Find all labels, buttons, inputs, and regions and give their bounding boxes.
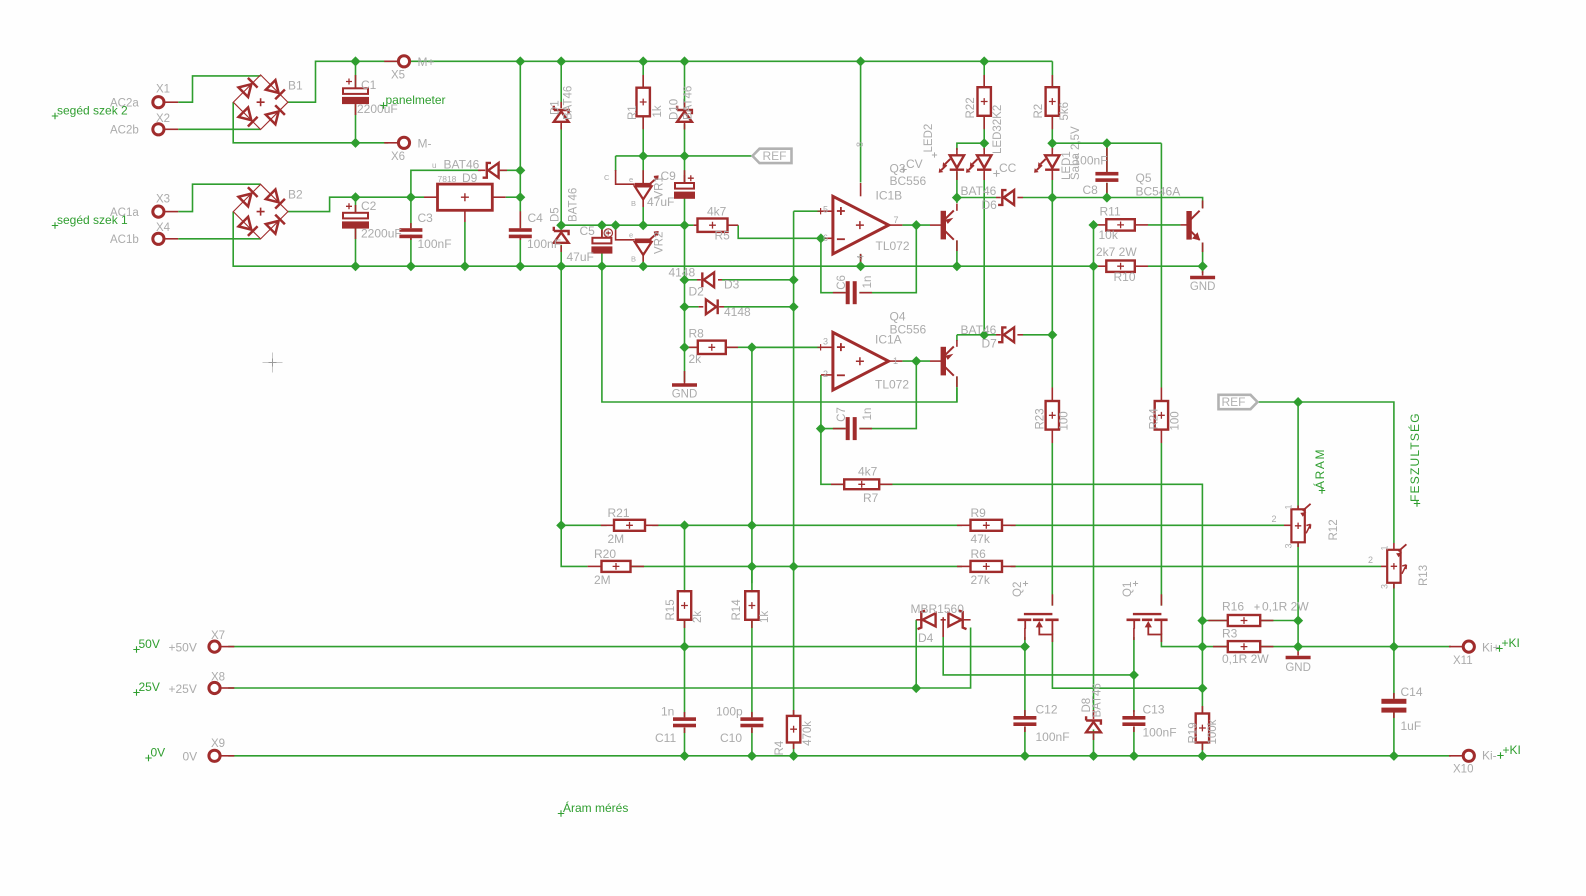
pin VR1 bottom	[642, 198, 644, 208]
svg-text:3: 3	[823, 337, 828, 347]
shunt regulator VR2	[635, 232, 658, 255]
pin IC1A out	[889, 360, 903, 362]
junction	[556, 220, 566, 230]
svg-text:0,1R 2W: 0,1R 2W	[1262, 600, 1309, 614]
capacitor C2	[343, 213, 368, 228]
svg-text:R11: R11	[1100, 205, 1121, 219]
wire C13 bottom	[1133, 727, 1135, 756]
svg-text:10k: 10k	[1099, 228, 1119, 242]
pin C13 top	[1133, 710, 1135, 716]
svg-text:e: e	[629, 175, 633, 184]
wire R14 top	[751, 566, 753, 590]
junction	[747, 751, 757, 761]
wire VR2 bottom	[642, 252, 644, 266]
connector pad X10	[1463, 750, 1474, 761]
resistor R4	[787, 716, 800, 743]
svg-text:C5: C5	[580, 224, 596, 238]
pin IC1A p2	[821, 374, 833, 376]
connector pad X1	[153, 97, 164, 108]
pin C9 top	[684, 170, 686, 183]
wire R15 top	[684, 525, 686, 590]
svg-text:C4: C4	[528, 211, 544, 225]
wire shunt left column	[1201, 621, 1203, 689]
pin D6 left	[996, 197, 1001, 199]
svg-text:D1: D1	[550, 100, 562, 115]
capacitor C8	[1095, 172, 1118, 182]
wire D10 bottom to REF row	[684, 124, 686, 156]
junction	[556, 261, 566, 271]
pin C13 bot	[1133, 726, 1135, 732]
svg-text:X8: X8	[211, 672, 225, 684]
wire D1 to D5	[560, 124, 562, 230]
net flag REF upper	[753, 149, 792, 163]
wire R24 bottom to Q1 gate	[1160, 443, 1162, 606]
pin Q1 drain	[1160, 634, 1162, 643]
svg-text:X7: X7	[211, 630, 225, 642]
svg-text:M-: M-	[418, 137, 432, 151]
marker IC1A origin	[817, 344, 823, 350]
svg-text:REF: REF	[763, 149, 787, 163]
wire D9 input side	[411, 170, 481, 197]
wire R16 right	[1260, 620, 1298, 622]
junction	[556, 520, 566, 530]
junction	[350, 192, 360, 202]
net label panelmeter	[380, 102, 386, 108]
pin R13 pin2	[1381, 565, 1387, 567]
capacitor C5 pin	[601, 225, 603, 238]
pin VR2 ref wire	[616, 228, 635, 240]
resistor R3	[1228, 641, 1260, 652]
pin C7 left	[833, 428, 846, 430]
net label Áram mérés	[558, 810, 564, 816]
svg-text:R12: R12	[1328, 519, 1340, 540]
svg-text:C6: C6	[836, 275, 848, 290]
pin C8 bot	[1106, 183, 1108, 198]
diode D9 BAT46	[483, 163, 499, 178]
wire D5 column to R21 R20	[560, 266, 562, 525]
wire Q2 source	[1024, 637, 1026, 647]
svg-text:100k: 100k	[1207, 719, 1219, 744]
diode D4 centre mark	[941, 617, 946, 622]
pin IC1A p3	[821, 346, 833, 348]
connector pad X4	[153, 233, 164, 244]
svg-text:1: 1	[893, 356, 898, 366]
trimmer R12	[1291, 504, 1310, 543]
junction	[350, 56, 360, 66]
junction	[1389, 642, 1399, 652]
junction	[1020, 751, 1030, 761]
capacitor C7	[846, 417, 857, 440]
svg-text:4k7: 4k7	[858, 465, 878, 479]
pin D1 top	[560, 102, 562, 108]
diode D4 MBR1560 right half	[948, 611, 966, 630]
junction	[816, 424, 826, 434]
wire C2 pins	[355, 197, 357, 213]
svg-text:R7: R7	[863, 491, 879, 505]
diode D6 BAT46	[998, 190, 1014, 205]
wire 0V line	[228, 755, 1451, 757]
junction	[1197, 683, 1207, 693]
capacitor C6	[846, 281, 857, 304]
pin Q4 base	[930, 360, 942, 362]
wire pin5 column	[793, 211, 795, 566]
wire 7818 output to C4 column	[506, 196, 521, 198]
svg-text:BAT46: BAT46	[563, 86, 575, 120]
svg-text:X5: X5	[391, 70, 405, 82]
wire R11 left column	[1093, 225, 1095, 266]
svg-text:4: 4	[856, 255, 866, 260]
net label 0V	[145, 755, 151, 761]
pin R13 pin1	[1393, 543, 1395, 550]
junction	[789, 751, 799, 761]
svg-text:D4: D4	[918, 631, 934, 645]
wire R7 right to shunt column	[879, 484, 1202, 620]
resistor R19	[1196, 714, 1209, 743]
wire LED1 anode	[1051, 143, 1053, 150]
wire D2 left	[685, 279, 698, 281]
wire D1 D5 column	[560, 61, 562, 108]
pin Q5 emitter	[1202, 243, 1204, 253]
svg-text:D3: D3	[724, 278, 740, 292]
pin D3 left	[699, 306, 704, 308]
svg-text:2M: 2M	[594, 573, 611, 587]
pin C5 top	[601, 225, 603, 238]
svg-text:Q4: Q4	[890, 310, 906, 324]
pin R19 bot	[1201, 742, 1203, 750]
svg-text:BAT46: BAT46	[961, 323, 997, 337]
pin R6 right	[1002, 565, 1016, 567]
pin R13 pin3	[1393, 583, 1395, 589]
pin C11 top	[684, 712, 686, 717]
pin R8 right	[726, 346, 738, 348]
svg-text:0V: 0V	[183, 750, 198, 764]
svg-text:BAT46: BAT46	[568, 188, 580, 222]
svg-text:1k: 1k	[652, 105, 664, 117]
svg-text:VR2: VR2	[654, 232, 666, 254]
svg-text:2k: 2k	[692, 611, 704, 623]
pin D7 left	[996, 334, 1001, 336]
wire LED2 cathode	[956, 172, 958, 198]
pin Q4 collector	[956, 376, 958, 387]
svg-text:panelmeter: panelmeter	[386, 93, 446, 107]
ground at R8	[672, 383, 697, 387]
junction	[679, 642, 689, 652]
capacitor C2 plus	[346, 203, 352, 209]
diode D4 MBR1560 left half	[918, 611, 936, 630]
wire R20 right row	[630, 565, 962, 567]
junction	[1197, 751, 1207, 761]
pin R9 right	[1002, 524, 1016, 526]
pin D8 bot	[1093, 734, 1095, 740]
svg-text:D9: D9	[462, 171, 478, 185]
svg-text:segéd szek 1: segéd szek 1	[57, 213, 128, 227]
junction	[747, 342, 757, 352]
wire B2 plus to regulator input rail	[288, 197, 424, 211]
pin R21 right	[645, 524, 658, 526]
connector pad X6	[398, 137, 409, 148]
transistor Q1 MOSFET	[1127, 614, 1168, 634]
wire R19 top	[1201, 688, 1203, 713]
svg-text:1n: 1n	[862, 408, 874, 421]
wire B1 minus to M- line	[233, 102, 388, 143]
svg-text:Q5: Q5	[1136, 171, 1152, 185]
junction	[679, 302, 689, 312]
pin Q3 base	[930, 224, 942, 226]
pin D4 centre	[942, 621, 944, 637]
svg-text:GND: GND	[672, 389, 698, 401]
pin R4 bot	[793, 742, 795, 749]
connector pad X2	[153, 124, 164, 135]
pin Q2 source	[1024, 628, 1026, 640]
pin R22 bot	[983, 116, 985, 129]
wire R16 left	[1202, 620, 1227, 622]
svg-text:VR1: VR1	[654, 176, 666, 198]
svg-text:27k: 27k	[971, 573, 991, 587]
svg-text:R4: R4	[774, 740, 786, 755]
wire R5 row	[561, 224, 693, 226]
svg-text:2M: 2M	[608, 532, 625, 546]
svg-text:R21: R21	[608, 506, 630, 520]
junction	[979, 138, 989, 148]
svg-text:1n: 1n	[862, 276, 874, 289]
junction	[515, 56, 525, 66]
svg-text:100nF: 100nF	[1143, 726, 1177, 740]
pin C2 bot	[355, 228, 357, 239]
svg-text:1: 1	[1284, 504, 1294, 509]
diode D1 BAT46	[554, 106, 569, 122]
wire R22 bottom node	[983, 117, 985, 144]
svg-text:2: 2	[1368, 555, 1373, 565]
pin LED3 cathode	[983, 170, 985, 180]
pin C6 left	[833, 292, 846, 294]
wire Q4 emitter	[956, 335, 958, 341]
pin R14 top	[751, 590, 753, 592]
wire REF2 flag to junction	[1258, 401, 1299, 403]
wire R23 top pin	[1051, 335, 1053, 388]
svg-text:D10: D10	[669, 99, 681, 120]
wire C3 bottom	[410, 235, 412, 266]
resistor R8	[698, 341, 726, 354]
wire X3 to bridge B2 AC1	[178, 184, 260, 211]
svg-text:1k: 1k	[759, 611, 771, 623]
wire C7 right to IC1A out	[859, 361, 916, 429]
wire D7 anode to R23 top	[1023, 334, 1052, 336]
wire D6 anode to LED1 foot	[1023, 197, 1052, 199]
pin R15 top	[684, 590, 686, 592]
wire LED3 cathode column to D7	[983, 172, 985, 335]
svg-text:BC546A: BC546A	[1136, 185, 1181, 199]
net flag REF lower	[1219, 395, 1258, 409]
svg-text:AC1b: AC1b	[110, 234, 139, 246]
shunt regulator VR1	[635, 177, 658, 200]
pin R7 left	[831, 483, 844, 485]
svg-text:100nF: 100nF	[1036, 730, 1070, 744]
junction	[406, 261, 416, 271]
wire R19 bottom	[1201, 743, 1203, 756]
svg-text:R20: R20	[594, 547, 616, 561]
svg-text:GND: GND	[1285, 662, 1311, 674]
wire C12 bottom	[1024, 727, 1026, 756]
svg-text:100nF: 100nF	[418, 237, 452, 251]
capacitor C5	[592, 238, 611, 253]
svg-text:2: 2	[823, 369, 828, 379]
LED LED2	[939, 155, 964, 172]
svg-text:X11: X11	[1453, 655, 1473, 667]
transistor Q3 BC556	[942, 211, 954, 240]
capacitor C9 pin	[684, 175, 686, 183]
svg-text:R8: R8	[689, 327, 705, 341]
svg-text:C2: C2	[361, 199, 377, 213]
svg-text:B2: B2	[288, 188, 303, 202]
wire X1 to bridge B1 AC1	[178, 76, 260, 102]
wire R23 bottom to Q2 gate	[1051, 443, 1053, 606]
wire Q3 emitter	[956, 198, 958, 204]
svg-text:4148: 4148	[724, 305, 751, 319]
pin R11 right	[1135, 224, 1148, 226]
svg-text:3: 3	[1284, 543, 1294, 548]
pin Q2 gate	[1051, 594, 1053, 605]
wire Q3 collector	[956, 241, 958, 267]
pin R11 left	[1096, 224, 1107, 226]
svg-text:7: 7	[894, 215, 899, 225]
transistor Q2 MOSFET	[1018, 614, 1059, 634]
wire R2 top	[1051, 61, 1053, 86]
wire D10 top	[684, 61, 686, 108]
svg-text:0,1R 2W: 0,1R 2W	[1222, 652, 1269, 666]
wire X4 to bridge B2 AC2	[178, 238, 260, 240]
pin 7818 in	[424, 196, 438, 198]
svg-text:segéd szek 2: segéd szek 2	[57, 104, 128, 118]
junction	[979, 330, 989, 340]
pin C3 bot	[410, 235, 412, 240]
wire C11 column	[684, 647, 686, 718]
wire R6 right to pot R13	[1011, 565, 1381, 567]
wire C5 column to Q4 collector line	[602, 266, 957, 402]
svg-text:C10: C10	[720, 731, 742, 745]
svg-text:D6: D6	[982, 198, 998, 212]
svg-text:50V: 50V	[139, 637, 160, 651]
svg-text:100nF: 100nF	[1074, 154, 1108, 168]
svg-text:C: C	[604, 229, 610, 238]
resistor R1	[637, 88, 650, 117]
svg-text:TL072: TL072	[875, 378, 909, 392]
svg-text:TL072: TL072	[876, 239, 910, 253]
svg-text:1n: 1n	[661, 705, 674, 719]
junction	[597, 261, 607, 271]
wire R1 top	[642, 61, 644, 87]
junction	[979, 56, 989, 66]
svg-text:X4: X4	[156, 222, 171, 234]
junction	[747, 520, 757, 530]
pin Q2 drain	[1051, 634, 1053, 643]
resistor R10	[1106, 261, 1135, 272]
junction	[789, 302, 799, 312]
pin R23 bot	[1051, 430, 1053, 443]
wire D5 bottom	[560, 245, 562, 266]
pin 7818 out	[492, 196, 505, 198]
junction	[1198, 261, 1208, 271]
wire R21 to R15 R14	[652, 524, 962, 526]
svg-text:R14: R14	[731, 599, 743, 621]
junction	[1047, 193, 1057, 203]
svg-text:C13: C13	[1143, 703, 1165, 717]
pin D9 right	[500, 169, 507, 171]
svg-text:X3: X3	[156, 194, 170, 206]
wire R9 right to pot R12	[1011, 524, 1284, 526]
wire C12 column	[1024, 647, 1026, 716]
junction	[1102, 193, 1112, 203]
svg-text:X1: X1	[156, 84, 170, 96]
wire D4 left column	[915, 620, 917, 688]
marker LED2 origin	[932, 152, 937, 157]
transistor Q5 BC546A	[1187, 211, 1200, 241]
wire C9 top	[684, 156, 686, 183]
svg-text:2200uF: 2200uF	[361, 227, 402, 241]
wire C1 top	[355, 61, 357, 88]
wire C6 right to IC1B out	[859, 225, 916, 293]
wire R11 left stub wire	[1094, 224, 1096, 226]
pin IC1B p6	[821, 237, 833, 239]
pin Q5 collector	[1202, 201, 1204, 209]
resistor R6	[971, 561, 1003, 572]
diode D2 1N4148	[702, 272, 714, 287]
pin C14 top	[1393, 693, 1395, 699]
pin C14 bot	[1393, 712, 1395, 718]
svg-text:BAT46: BAT46	[444, 158, 480, 172]
svg-text:u: u	[432, 161, 436, 170]
svg-text:100p: 100p	[716, 705, 743, 719]
svg-text:47k: 47k	[971, 532, 991, 546]
resistor R23	[1046, 401, 1059, 430]
wire R11 R10 column to D8	[1093, 266, 1095, 713]
junction	[1088, 220, 1098, 230]
wire C8 top	[1106, 143, 1108, 172]
svg-text:BAT46: BAT46	[961, 184, 997, 198]
svg-text:3: 3	[1380, 584, 1390, 589]
pin R24 bot	[1160, 430, 1162, 443]
junction	[611, 220, 621, 230]
junction	[911, 683, 921, 693]
pin VR2 bottom	[642, 254, 644, 264]
junction	[679, 751, 689, 761]
pin C1 bot	[355, 104, 357, 115]
wire REF2 down to R12 pin1	[1297, 402, 1299, 509]
pin Q3 collector	[956, 240, 958, 251]
wire B1 plus to top bus	[288, 61, 1052, 102]
svg-text:X9: X9	[211, 738, 225, 750]
pin IC1B p5	[821, 210, 833, 212]
svg-text:47uF: 47uF	[567, 250, 594, 264]
svg-text:AC2b: AC2b	[110, 125, 139, 137]
junction	[1197, 616, 1207, 626]
junction	[1293, 397, 1303, 407]
svg-text:4148: 4148	[669, 266, 696, 280]
pin C6 right	[860, 292, 873, 294]
svg-text:B1: B1	[288, 79, 303, 93]
junction	[789, 275, 799, 285]
wire R12 pin3 down	[1297, 543, 1299, 621]
net label segéd szek 2	[52, 113, 58, 119]
pin Q1 source	[1133, 628, 1135, 640]
junction	[816, 233, 826, 243]
pin Q4 emitter	[956, 340, 958, 347]
junction	[679, 520, 689, 530]
junction	[1389, 751, 1399, 761]
voltage regulator D9 7818 body	[438, 184, 493, 210]
svg-text:100nF: 100nF	[527, 237, 561, 251]
wire R23 column top	[1051, 198, 1053, 335]
diode D3 1N4148	[706, 299, 718, 314]
